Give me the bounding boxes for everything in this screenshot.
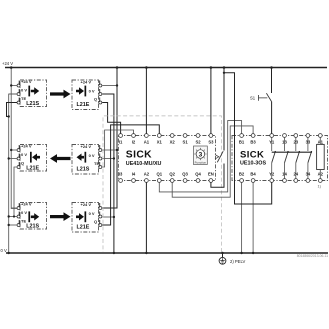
svg-text:S3: S3 xyxy=(208,139,214,144)
safety controller U1 UE410-MU/XU box xyxy=(118,136,215,181)
light curtain L21S row 2 right box xyxy=(72,144,99,174)
light curtain L21S row 1 left box xyxy=(20,79,47,107)
wire L21S 0V stub xyxy=(9,216,17,218)
light curtain L21E row 1 right box xyxy=(72,80,99,110)
svg-text:L21E: L21E xyxy=(77,224,90,230)
junction on 0V rail xyxy=(8,157,10,159)
wire L21S row1 TE loop to 0V rail xyxy=(7,103,18,117)
svg-text:S2: S2 xyxy=(195,139,201,144)
wire Q2 to B3 xyxy=(172,126,253,197)
junction row3 TE on 0V rail xyxy=(8,224,10,226)
svg-text:S1: S1 xyxy=(250,96,256,101)
light curtain L21E row 3 right box xyxy=(72,202,99,232)
terminal L21S +24V xyxy=(17,203,20,210)
svg-text:SICK: SICK xyxy=(240,150,264,161)
contact 33-34 xyxy=(308,137,312,178)
junction B2 on 0V xyxy=(240,252,242,254)
light curtain L21E row 2 left box xyxy=(20,143,47,171)
terminal L21E +24V xyxy=(17,145,20,152)
junction row1 +24V xyxy=(116,84,118,86)
cabinet boundary xyxy=(103,116,221,252)
terminal U1 X2 xyxy=(170,134,174,138)
terminal L21S TE xyxy=(17,220,20,227)
terminal U2 B1 xyxy=(240,134,244,138)
junction EN riser on +24V line xyxy=(223,66,226,69)
svg-text:+24 V: +24 V xyxy=(21,201,32,206)
svg-text:Q: Q xyxy=(94,96,97,101)
reset switch S2 on EN xyxy=(211,68,224,188)
svg-text:+24 V: +24 V xyxy=(21,143,32,148)
contact 23-24 xyxy=(296,137,300,178)
terminal L21S 0V xyxy=(17,89,20,96)
relay coil K1 A1-A2 xyxy=(317,137,325,178)
terminal L21E Q xyxy=(99,220,102,227)
terminal L21S TE xyxy=(17,98,20,105)
svg-text:0 V: 0 V xyxy=(21,87,27,92)
svg-text:X2: X2 xyxy=(170,139,176,144)
svg-text:B2: B2 xyxy=(239,172,245,177)
light beam arrow row 2 xyxy=(50,154,71,163)
wire L21S row3 TE stub xyxy=(9,224,17,226)
svg-text:Q4: Q4 xyxy=(195,172,201,177)
wire L21E 0V stub xyxy=(9,158,17,160)
terminal U2 B3 xyxy=(251,134,255,138)
wire left +24V rail xyxy=(11,68,18,209)
svg-text:0 V: 0 V xyxy=(89,211,95,216)
wire 0V drop from receivers xyxy=(102,94,114,253)
junction row3 0V xyxy=(113,216,115,218)
wire +24V supply line xyxy=(5,67,327,69)
wire Y2 feedback from +24V xyxy=(224,73,272,204)
terminal U2 A1 xyxy=(318,134,322,138)
junction on 0V rail xyxy=(8,215,10,217)
wire +24V to A1 xyxy=(145,68,147,134)
terminal L21E +24V xyxy=(99,81,102,88)
svg-text:0 V: 0 V xyxy=(89,153,95,158)
terminal L21S 0V xyxy=(17,212,20,219)
svg-text:UE410-MU/XU: UE410-MU/XU xyxy=(126,161,162,167)
wire L21E row3 Q to X1 xyxy=(102,125,159,225)
junction TE loop on 0V rail xyxy=(8,115,10,117)
wire row1 +24V stub xyxy=(102,85,117,87)
wire Q1 to B1 xyxy=(159,121,241,192)
svg-text:A2: A2 xyxy=(144,172,150,177)
junction 0V rail on 0V line xyxy=(8,252,10,254)
junction B4 on 0V xyxy=(252,252,254,254)
svg-text:L21E: L21E xyxy=(26,165,39,171)
wire B4 to 0V xyxy=(252,182,254,253)
terminal U2 Y1 xyxy=(270,134,274,138)
junction on +24V rail xyxy=(10,84,12,86)
wire +24V to S3 xyxy=(210,68,212,134)
terminal U2 33 xyxy=(306,134,310,138)
wire 0V supply line xyxy=(6,252,328,254)
terminal U2 13 xyxy=(283,134,287,138)
junction on +24V rail xyxy=(10,149,12,151)
contact Y1-Y2 xyxy=(272,137,276,178)
light curtain L21S row 3 left box xyxy=(20,201,47,229)
wire L21S +24V stub xyxy=(11,207,17,209)
light beam arrow row 1 xyxy=(50,90,71,99)
terminal L21S +24V xyxy=(17,81,20,88)
terminal L21E 0V xyxy=(17,154,20,161)
junction row2 +24V xyxy=(116,149,118,151)
svg-text:+24 V: +24 V xyxy=(81,202,92,207)
svg-text:EN: EN xyxy=(208,172,214,177)
terminal U1 S2 xyxy=(196,134,200,138)
wire L21E row2 Q drop xyxy=(14,167,17,217)
junction A2 on 0V line xyxy=(145,252,147,254)
junction Y2 branch on EN riser xyxy=(223,72,225,74)
terminal L21S 0V xyxy=(99,154,102,161)
svg-text:L21S: L21S xyxy=(77,166,90,172)
junction S3 drop xyxy=(210,66,213,69)
svg-text:0 V: 0 V xyxy=(21,210,27,215)
junction A1 drop xyxy=(145,66,148,69)
wire row3 0V stub xyxy=(102,216,114,218)
wire B2 to 0V xyxy=(241,182,243,253)
terminal L21S +24V xyxy=(99,145,102,152)
svg-text:Function: Function xyxy=(195,161,207,165)
junction earth on 0V line xyxy=(221,252,223,254)
functional earth symbol xyxy=(219,253,226,264)
svg-text:SICK: SICK xyxy=(126,149,152,160)
junction S1 riser on +24V line xyxy=(270,66,273,69)
svg-text:X1: X1 xyxy=(157,139,163,144)
wire +24V drop to receivers xyxy=(102,68,117,209)
wire L21S +24V stub xyxy=(11,85,17,87)
wire left 0V rail xyxy=(9,94,19,253)
junction row2 Q end xyxy=(13,215,15,217)
svg-text:A1: A1 xyxy=(144,139,150,144)
terminal L21E Q xyxy=(17,162,20,169)
svg-text:B4: B4 xyxy=(250,172,256,177)
terminal L21S TE xyxy=(99,162,102,169)
terminal U1 A1 xyxy=(145,134,149,138)
svg-text:B1: B1 xyxy=(239,139,245,144)
relay module U2 UE10-3OS box xyxy=(232,136,328,181)
terminal U1 S1 xyxy=(183,134,187,138)
junction row2 0V xyxy=(113,157,115,159)
junction +24V drop on +24V line xyxy=(116,66,119,69)
svg-text:0 V: 0 V xyxy=(89,88,95,93)
junction +24V rail on +24V line xyxy=(10,66,13,69)
svg-text:2) PELV: 2) PELV xyxy=(230,259,245,264)
terminal L21E 0V xyxy=(99,212,102,219)
svg-text:+24 V: +24 V xyxy=(2,61,13,66)
junction 0V drop on 0V line xyxy=(113,252,115,254)
svg-text:S1: S1 xyxy=(183,139,189,144)
svg-text:L21S: L21S xyxy=(26,223,39,229)
svg-text:Q2: Q2 xyxy=(169,172,175,177)
svg-text:L21E: L21E xyxy=(77,102,90,108)
wire L21S row2 TE to I2 xyxy=(102,130,133,167)
wire row2 +24V stub xyxy=(102,149,117,151)
wire L21E +24V stub xyxy=(11,149,17,151)
svg-text:TE: TE xyxy=(94,161,99,166)
svg-text:+24 V: +24 V xyxy=(21,79,32,84)
svg-text:+24 V: +24 V xyxy=(81,80,92,85)
svg-text:Q1: Q1 xyxy=(157,172,163,177)
svg-text:B3: B3 xyxy=(250,139,256,144)
terminal U1 I1 xyxy=(119,134,123,138)
U1 function selector knob xyxy=(194,146,208,165)
svg-text:Q: Q xyxy=(21,160,24,165)
wire A2 to 0V xyxy=(145,182,147,253)
terminal L21E 0V xyxy=(99,89,102,96)
svg-text:UE10-3OS: UE10-3OS xyxy=(240,161,266,167)
svg-text:+24 V: +24 V xyxy=(81,144,92,149)
terminal U1 S3 xyxy=(209,134,213,138)
wire row2 0V stub xyxy=(102,158,114,160)
pushbutton S1 xyxy=(250,68,272,134)
wire L21E row1 Q to I1 xyxy=(102,103,120,134)
contact 13-14 xyxy=(285,137,289,178)
svg-text:8014866/2013-06-11: 8014866/2013-06-11 xyxy=(297,254,328,258)
wire L21S 0V stub xyxy=(9,93,17,95)
terminal U1 X1 xyxy=(157,134,161,138)
terminal U2 23 xyxy=(294,134,298,138)
terminal U1 I2 xyxy=(132,134,136,138)
light beam arrow row 3 xyxy=(50,212,71,221)
svg-text:Q: Q xyxy=(94,219,97,224)
terminal L21E +24V xyxy=(99,203,102,210)
svg-text:L21S: L21S xyxy=(26,101,39,107)
svg-text:3: 3 xyxy=(199,151,203,158)
svg-text:0 V: 0 V xyxy=(21,152,27,157)
svg-text:Q3: Q3 xyxy=(182,172,188,177)
U2 contact linkage xyxy=(272,151,312,153)
terminal L21E Q xyxy=(99,98,102,105)
